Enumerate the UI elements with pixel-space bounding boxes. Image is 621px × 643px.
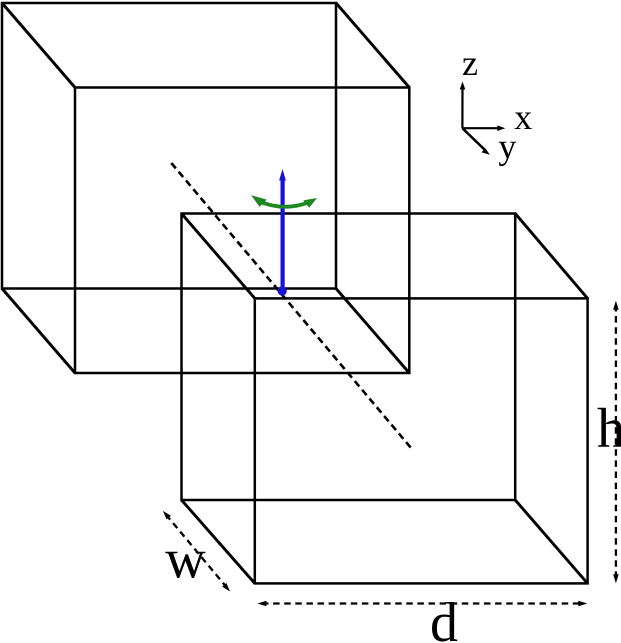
box 1 edge top-left	[2, 3, 75, 88]
box 2 edge bottom-right	[515, 500, 587, 583]
box 2 front face	[255, 298, 588, 583]
svg-text:w: w	[165, 528, 206, 590]
w dimension arrow head bottom	[222, 583, 230, 592]
svg-text:y: y	[498, 127, 516, 167]
blue pivot arrow shaft	[281, 178, 285, 292]
z axis line	[461, 87, 463, 128]
z axis arrow head	[460, 82, 466, 90]
box 1 edge bottom-right	[336, 289, 409, 374]
box 2 edge bottom-left	[182, 500, 255, 583]
h dimension arrow head bottom	[613, 574, 619, 583]
d dimension dashed line	[262, 602, 583, 604]
d dimension arrow head right	[578, 601, 587, 607]
svg-text:z: z	[462, 43, 478, 83]
box 2 edge top-right	[515, 214, 587, 299]
box 1 edge bottom-left	[2, 289, 75, 374]
blue pivot arrow head	[279, 169, 286, 181]
svg-text:d: d	[430, 592, 458, 643]
w dimension dashed line	[166, 515, 227, 589]
x axis arrow head	[497, 125, 505, 131]
h dimension arrow head top	[613, 301, 619, 310]
box 2 back face	[182, 214, 516, 501]
box 2 edge top-left	[182, 214, 255, 299]
y axis arrow head	[482, 148, 490, 155]
box 1 edge top-right	[336, 3, 409, 88]
rotation axis dashed line	[171, 163, 412, 449]
d dimension arrow head left	[257, 601, 266, 607]
x axis line	[462, 127, 500, 129]
box 1 front face	[75, 88, 409, 374]
y axis line	[462, 128, 486, 151]
svg-text:x: x	[514, 97, 532, 137]
green rotation arrow head right	[303, 198, 317, 208]
blue pivot dot	[278, 286, 287, 295]
box 1 back face	[2, 3, 336, 289]
w dimension arrow head top	[163, 511, 171, 520]
green rotation arc	[257, 201, 311, 207]
h dimension dashed line	[615, 305, 617, 579]
green rotation arrow head left	[251, 195, 267, 207]
svg-text:h: h	[597, 398, 621, 460]
